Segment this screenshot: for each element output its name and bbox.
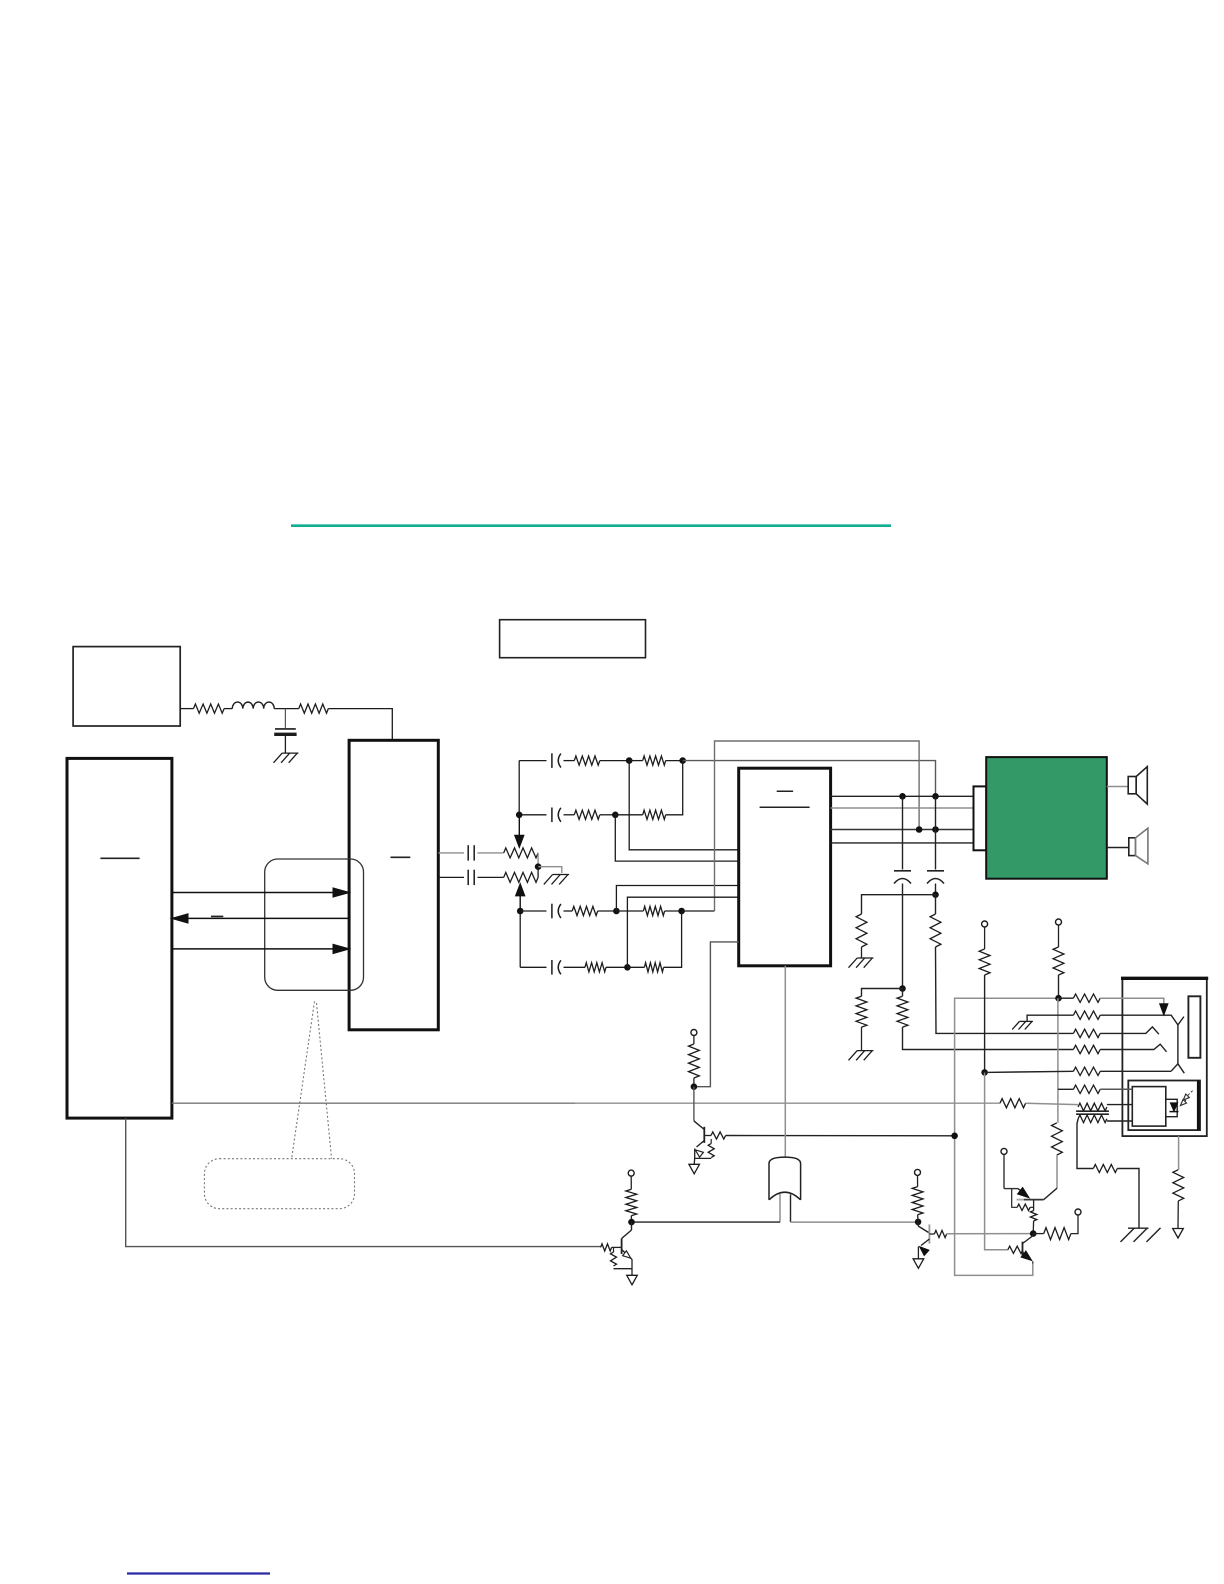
resistor R28 bbox=[1052, 1123, 1063, 1155]
rounded bus box between U2 and U3 bbox=[265, 859, 364, 990]
node N7 on rail bbox=[951, 1133, 958, 1140]
IR line A wire bbox=[1058, 1088, 1074, 1090]
ground G2 bbox=[553, 874, 570, 876]
Q1 emitter bbox=[697, 1141, 705, 1148]
buzzer leg 1 bbox=[779, 1194, 781, 1222]
wire U5 to speaker SP2 bbox=[1107, 847, 1129, 849]
buzzer BZ1 bbox=[769, 1157, 801, 1200]
jack line1 wire bbox=[1059, 997, 1074, 999]
resistor R14 bbox=[856, 996, 867, 1027]
long net from U2 right edge bbox=[172, 1102, 575, 1104]
terminal T2 bbox=[628, 1170, 634, 1176]
empty title box bbox=[500, 620, 646, 658]
row1 net to output rail bbox=[683, 761, 936, 797]
U4 label dash 1 bbox=[777, 790, 793, 792]
row2 tap down to U4 in2 bbox=[615, 815, 738, 861]
rail R28 to Q3 collector bbox=[1056, 1155, 1058, 1188]
transistor Q3 base bar (horizontal) bbox=[1017, 1199, 1024, 1201]
rail R36 down to node bbox=[1058, 975, 1060, 998]
wire U3 out L bbox=[438, 852, 464, 854]
Q3 collector bbox=[1044, 1188, 1057, 1199]
U4 out2 to speaker connector bbox=[831, 807, 974, 809]
node N8 bbox=[981, 1069, 988, 1076]
wire R13 to ground bbox=[861, 947, 863, 958]
wire node-R8 bbox=[616, 910, 643, 912]
transformer TR1 secondary bbox=[1078, 1115, 1107, 1123]
wire R7-node bbox=[598, 910, 617, 912]
U4 bottom pin wire to buzzer bbox=[784, 966, 786, 1158]
photodiode box bbox=[1166, 1099, 1177, 1116]
Q1 base wire bbox=[704, 1135, 711, 1137]
block U2 (left tall block) bbox=[67, 758, 172, 1118]
row4 feedback up to row3 bbox=[664, 911, 682, 967]
node N3 bbox=[932, 891, 939, 898]
wire U3 out R bbox=[438, 876, 464, 878]
resistor R31 bbox=[1073, 1011, 1100, 1019]
left rail rows1-2 bbox=[518, 761, 520, 815]
transformer core bbox=[1076, 1110, 1109, 1112]
wire T4 to R35 bbox=[984, 927, 986, 949]
wire R2 to U3 bbox=[328, 709, 392, 741]
IR module outer box bbox=[1128, 1081, 1200, 1131]
wire R15 to node bbox=[693, 1078, 695, 1087]
resistor R37 bbox=[1093, 1165, 1117, 1173]
resistor R6 bbox=[643, 810, 666, 819]
bus arrow A1 (U2 to U3) bbox=[172, 892, 338, 894]
block U1 (small box top-left) bbox=[73, 647, 180, 726]
Q4 base wire bbox=[929, 1233, 934, 1235]
wire R27 to node bbox=[1032, 1221, 1034, 1234]
wire R5-node bbox=[600, 814, 616, 816]
rail C8 to node bbox=[902, 884, 904, 989]
Q2 collector wire bbox=[631, 1222, 633, 1230]
resistor R38 bbox=[1173, 1170, 1184, 1201]
resistor R26 (Q3 b-e) bbox=[1017, 1204, 1030, 1210]
gray rail upper corner bbox=[955, 998, 1059, 1275]
resistor R7 bbox=[572, 906, 598, 915]
wire R37 to ground bbox=[1117, 1169, 1139, 1229]
teal horizontal rule bbox=[291, 524, 891, 527]
node row2 bbox=[612, 812, 619, 819]
rail R11 to jack line3 bbox=[936, 947, 1074, 1033]
Q2 emitter bbox=[622, 1250, 629, 1257]
terminal T3 bbox=[915, 1169, 921, 1175]
speaker SP2 bbox=[1129, 838, 1136, 856]
net buzzer to Q4-node bbox=[791, 1221, 919, 1223]
resistor R35 bbox=[979, 949, 990, 975]
Q2 base wire bbox=[612, 1246, 622, 1248]
resistor R29 bbox=[1073, 1085, 1100, 1093]
wire R9-node bbox=[606, 966, 627, 968]
wire R8-node2 bbox=[665, 910, 682, 912]
IR module bottom pin wire bbox=[1178, 1136, 1180, 1170]
wire U1 to R1 bbox=[180, 708, 193, 710]
interface box top edge bbox=[1121, 977, 1208, 980]
IR module inner box bbox=[1132, 1087, 1166, 1127]
resistor R20 (Q2 b-e) bbox=[611, 1252, 617, 1266]
ground G1 bbox=[282, 752, 298, 754]
bus arrow A2 (U3 to U2) bbox=[183, 917, 349, 919]
wire node to ground G2 bbox=[538, 867, 562, 873]
ground G6 (triangle) bbox=[627, 1275, 638, 1285]
wire C7-R9 bbox=[564, 966, 586, 968]
resistor R30 bbox=[1073, 994, 1100, 1002]
node N4 bbox=[691, 1083, 698, 1090]
IR line A into module bbox=[1100, 1088, 1132, 1090]
capacitor C2 bbox=[467, 845, 469, 860]
terminal T5 bbox=[1056, 919, 1062, 925]
resistor R23 bbox=[912, 1187, 923, 1215]
resistor R21 on long net bbox=[1000, 1099, 1026, 1108]
wire T1 to R15 bbox=[693, 1036, 695, 1045]
node row1 right bbox=[679, 757, 686, 764]
Q5 emitter bbox=[1023, 1252, 1030, 1258]
row3 tap up to U4 in3 bbox=[616, 886, 738, 912]
wire T6 down bbox=[1003, 1154, 1005, 1188]
resistor R22 (Q4 base) bbox=[934, 1230, 946, 1237]
resistor R11 bbox=[930, 914, 941, 947]
node out1-a bbox=[899, 793, 906, 800]
wire R3-node bbox=[600, 760, 629, 762]
ground G10 (triangle) bbox=[1173, 1229, 1184, 1239]
wire C5-R5 bbox=[564, 814, 575, 816]
photodiode D1 bbox=[1171, 1103, 1178, 1111]
P2 right end to node bbox=[537, 867, 539, 878]
wire R21 to transformer bbox=[1026, 1103, 1079, 1104]
secondary out to IR module bbox=[1107, 1120, 1132, 1122]
rail C9 to node bbox=[935, 884, 937, 895]
P1 to node bbox=[537, 853, 539, 867]
resistor R5 bbox=[574, 810, 600, 819]
resistor R34 bbox=[1073, 1067, 1100, 1075]
capacitor C3 bbox=[467, 870, 469, 885]
rail from out1 down bbox=[902, 796, 904, 869]
rail from row1-net down bbox=[935, 796, 937, 869]
P2 wiper arrow bbox=[519, 894, 521, 911]
Q1 collector wire bbox=[693, 1087, 695, 1121]
Q1 emitter to ground bbox=[693, 1158, 696, 1164]
rail to top feed line bbox=[715, 741, 920, 911]
wire R14 to ground bbox=[861, 1027, 863, 1050]
node N5 bbox=[628, 1219, 635, 1226]
transistor Q5 base bar bbox=[1022, 1242, 1024, 1256]
node out3-a bbox=[916, 826, 923, 833]
buzzer leg 2 bbox=[790, 1195, 792, 1223]
wire R18 to node bbox=[630, 1216, 632, 1222]
blue footer underline bbox=[127, 1572, 270, 1574]
wire node-R4 bbox=[629, 760, 643, 762]
transformer TR1 primary bbox=[1078, 1103, 1107, 1111]
wire node-R6 bbox=[615, 814, 642, 816]
dashed callout balloon bbox=[204, 1159, 354, 1209]
capacitor C5 bbox=[551, 808, 553, 823]
row1 tap down to U4 in1 bbox=[629, 761, 739, 850]
speaker SP1 bbox=[1128, 777, 1136, 794]
node out1-b bbox=[932, 793, 939, 800]
row4 tap up to U4 in4 bbox=[627, 897, 738, 967]
resistor R25 (pull-up) bbox=[1033, 1233, 1044, 1235]
node N10 bbox=[1030, 1230, 1037, 1237]
resistor R27 (Q3 base) bbox=[1030, 1211, 1036, 1221]
resistor R16 (Q1 base) bbox=[711, 1132, 726, 1139]
U3 label dash bbox=[391, 856, 411, 858]
potentiometer P2 bbox=[504, 872, 538, 882]
rail R35 down bbox=[984, 975, 986, 1072]
wire R25 to T7 bbox=[1071, 1215, 1078, 1234]
line3 into jack chevron bbox=[1100, 1027, 1159, 1034]
Q3 b-e loop wire bbox=[1012, 1189, 1018, 1208]
speaker connector J1 bbox=[974, 786, 987, 850]
wire T5 to R36 bbox=[1058, 925, 1060, 947]
terminal T6 bbox=[1001, 1148, 1007, 1154]
Q3 base wire down bbox=[1033, 1200, 1035, 1211]
jack bottom contact bbox=[1171, 1064, 1184, 1073]
label tick on A2 bbox=[211, 915, 223, 917]
resistor R32 bbox=[1073, 1029, 1100, 1037]
primary out to IR module bbox=[1107, 1104, 1132, 1106]
resistor R17 (Q1 b-e) bbox=[708, 1144, 714, 1158]
wire R38 to ground bbox=[1177, 1201, 1179, 1229]
net Q2-node to buzzer bbox=[632, 1221, 781, 1223]
resistor R4 bbox=[643, 756, 666, 765]
jack internal common bbox=[1177, 1025, 1179, 1064]
resistor R10 bbox=[644, 963, 663, 972]
transistor Q2 base bar bbox=[621, 1239, 623, 1255]
terminal T1 bbox=[691, 1030, 697, 1036]
wire T3 to R23 bbox=[917, 1175, 919, 1186]
node row4 bbox=[624, 964, 631, 971]
green block U5 (power module) bbox=[986, 757, 1107, 879]
capacitor C1 (electrolytic to ground) bbox=[284, 709, 286, 728]
IR light rays bbox=[1183, 1091, 1192, 1100]
ground G8 bbox=[1019, 1020, 1033, 1022]
secondary return wire bbox=[1077, 1119, 1093, 1169]
resistor R2 bbox=[299, 704, 329, 713]
wire C4-R3 bbox=[564, 760, 575, 762]
capacitor C7 bbox=[551, 960, 553, 975]
block U4 (audio processor) bbox=[739, 768, 831, 966]
Q5 collector bbox=[1023, 1236, 1034, 1244]
resistor R24 (Q5 base) bbox=[1008, 1246, 1023, 1253]
row1 wire to C4 bbox=[519, 760, 546, 762]
line2 into jack tip contact bbox=[1100, 1015, 1184, 1025]
U4 out1 to speaker connector bbox=[831, 795, 974, 797]
bus arrow A3 (U2 to U3) bbox=[172, 948, 338, 950]
row4 wire to C7 bbox=[520, 966, 546, 968]
terminal T7 bbox=[1075, 1209, 1081, 1215]
node N6 bbox=[915, 1219, 922, 1226]
node out3-b bbox=[932, 826, 939, 833]
capacitor C8 bbox=[894, 870, 911, 872]
U4 out4 to speaker connector bbox=[831, 842, 974, 844]
capacitor C9 bbox=[927, 870, 944, 872]
Q2 emitter to ground bbox=[631, 1269, 633, 1276]
ground branch g1 wire bbox=[862, 895, 936, 914]
ground G4 bbox=[857, 1050, 873, 1052]
jack line2 wire from ground bbox=[1027, 1015, 1073, 1021]
interface box bbox=[1122, 978, 1206, 1136]
node row2 left bbox=[516, 812, 523, 819]
resistor R12 bbox=[897, 996, 908, 1027]
ground G5 (triangle) bbox=[689, 1164, 700, 1174]
node N1 (pot common) bbox=[535, 863, 542, 870]
block U3 (middle tall block) bbox=[349, 740, 438, 1030]
wire C2 to P1 bbox=[478, 852, 504, 854]
node row3 left bbox=[517, 908, 524, 915]
P1 wiper arrow bbox=[518, 815, 520, 836]
U4 out3 to speaker connector bbox=[831, 829, 974, 831]
row3 wire to C6 bbox=[520, 910, 546, 912]
resistor R15 bbox=[689, 1044, 700, 1078]
Q4 base net bbox=[947, 1233, 1034, 1235]
line5 into jack bbox=[1100, 1070, 1171, 1072]
row2 feedback up to row1 bbox=[666, 761, 683, 815]
node row3 bbox=[613, 908, 620, 915]
row2 wire to C5 bbox=[519, 814, 546, 816]
wire R1 to L1 bbox=[224, 708, 232, 710]
Q3 emitter wire bbox=[1004, 1188, 1018, 1190]
resistor R18 bbox=[626, 1189, 637, 1215]
ground G3 bbox=[857, 957, 873, 959]
resistor R3 bbox=[574, 756, 600, 765]
wire T2 to R18 bbox=[630, 1176, 632, 1189]
left rail rows3-4 bbox=[519, 911, 521, 967]
U4 label dash 2 bbox=[760, 806, 810, 808]
capacitor C6 bbox=[551, 904, 553, 919]
ground G7 (triangle) bbox=[913, 1259, 924, 1269]
resistor R36 bbox=[1053, 947, 1064, 975]
resistor R13 bbox=[856, 914, 867, 947]
rail to Q5 base bbox=[985, 1072, 1008, 1249]
wire U5 to speaker SP1 bbox=[1107, 786, 1128, 788]
dashed callout wedge bbox=[292, 1001, 315, 1158]
jack sleeve bar bbox=[1188, 996, 1200, 1058]
terminal T4 bbox=[982, 921, 988, 927]
transistor Q1 base bar bbox=[703, 1127, 705, 1143]
ground G9 bbox=[1128, 1227, 1149, 1229]
wire C3 to P2 bbox=[478, 876, 504, 878]
wire U2 bottom to bottom-left rail bbox=[126, 1118, 601, 1247]
Q1 base net to rail bbox=[726, 1135, 955, 1137]
wire R4-node2 bbox=[666, 760, 683, 762]
capacitor C4 bbox=[551, 753, 553, 768]
resistor R8 bbox=[643, 906, 664, 915]
potentiometer P1 bbox=[504, 848, 538, 858]
resistor R33 bbox=[1073, 1045, 1100, 1053]
U4 aux pin wire down-left bbox=[694, 942, 739, 1087]
line4 into jack chevron bbox=[1100, 1044, 1166, 1052]
resistor R19 (Q2 base) bbox=[601, 1244, 612, 1251]
node row3 right bbox=[678, 908, 685, 915]
transistor Q4 base bar bbox=[928, 1224, 930, 1243]
node N2 bbox=[899, 985, 906, 992]
node N9 bbox=[1055, 995, 1062, 1002]
wire C6-R7 bbox=[564, 910, 573, 912]
ground branch g2 wire bbox=[862, 989, 903, 997]
IR module right edge thick bbox=[1197, 1081, 1200, 1131]
node row1 bbox=[626, 757, 633, 764]
rail R12 to jack line4 bbox=[903, 1027, 1074, 1049]
jack line5 wire bbox=[985, 1071, 1074, 1072]
rail N9 down to R28 bbox=[1057, 998, 1059, 1123]
inductor L1 bbox=[232, 702, 274, 709]
U2 label dash bbox=[100, 857, 139, 859]
line1 into jack with arrow bbox=[1100, 998, 1164, 1004]
resistor R9 bbox=[585, 963, 606, 972]
Q4 emitter bbox=[921, 1239, 929, 1246]
wire node-R10 bbox=[627, 966, 644, 968]
resistor R1 bbox=[194, 704, 225, 713]
wire R23 to node bbox=[917, 1215, 920, 1222]
row3 net right to rail bbox=[682, 910, 715, 912]
Q4 collector wire bbox=[917, 1222, 919, 1226]
wire L1 to R2 through node bbox=[274, 708, 299, 710]
